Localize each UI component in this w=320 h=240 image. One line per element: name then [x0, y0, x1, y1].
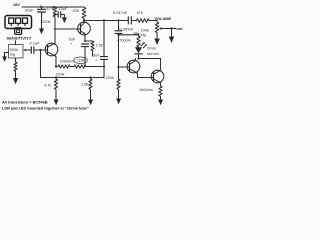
wire line B vertical with cap [118, 21, 120, 31]
node junction line B top [117, 19, 119, 21]
svg-text:SENSITIVITY: SENSITIVITY [7, 36, 32, 41]
wire pot lower terminal to ground left [5, 53, 9, 57]
svg-text:LDR and LED mounted together i: LDR and LED mounted together in “shrink … [2, 105, 89, 110]
svg-text:100ohm: 100ohm [139, 87, 153, 92]
svg-text:log: log [10, 52, 15, 57]
svg-text:1.5k: 1.5k [81, 82, 88, 87]
transistor Q3 [127, 60, 140, 73]
ground below R11 [88, 100, 93, 106]
node junction dot rail/R1 [53, 6, 55, 8]
svg-text:5mm: 5mm [147, 46, 156, 51]
node junction wireB/Q1 emitter column [55, 76, 57, 78]
svg-text:out: out [177, 26, 184, 31]
ground below out [169, 37, 175, 44]
wiper arrow + out wire [161, 28, 176, 30]
ground left of pot [2, 57, 7, 62]
node junction wireB/Q2 emitter column [89, 76, 91, 78]
svg-text:All transistors = BC548B: All transistors = BC548B [2, 99, 48, 104]
node junction chain / Q1 emitter [55, 65, 57, 67]
svg-text:220k: 220k [42, 19, 50, 24]
wire2 to 10k [119, 34, 139, 36]
ground below R10 [158, 100, 163, 106]
node junction out/ground [170, 27, 172, 29]
node junction line B / Q3 base [117, 66, 119, 68]
transistor Q1 [45, 43, 58, 56]
wire collector tie [139, 58, 161, 60]
svg-text:18V: 18V [13, 2, 20, 7]
svg-text:220k: 220k [106, 75, 114, 80]
wire signal bus y20.5 [84, 20, 128, 22]
svg-text:4.7k: 4.7k [47, 6, 54, 11]
svg-text:33uF: 33uF [25, 8, 34, 13]
node junction chain / line A [103, 65, 105, 67]
node Q1 base junction [39, 49, 41, 51]
svg-text:log: log [141, 32, 146, 37]
ground below R3 [13, 78, 18, 84]
resistor R5 1.5k from emitter [85, 41, 94, 56]
node junction Q2 collector [83, 19, 85, 21]
transistor Q4 [151, 70, 164, 83]
wire line A vertical [103, 21, 105, 57]
svg-text:220k: 220k [56, 72, 64, 77]
svg-text:1.5k: 1.5k [96, 43, 103, 48]
ground below VR2 [154, 39, 160, 46]
ground below C1 [39, 29, 44, 35]
capacitor C7 0.047uF [115, 31, 122, 34]
transistor Q2 [78, 22, 91, 35]
ground below R8 [116, 99, 121, 105]
svg-text:100ohm: 100ohm [60, 58, 74, 63]
svg-text:22k: 22k [73, 8, 79, 13]
capacitor C1 33uF [41, 7, 43, 9]
node Q2 emitter junction [84, 40, 86, 42]
LDR (oval label + zigzag) [74, 57, 88, 64]
LED D1 [135, 47, 142, 53]
wire feedback bottom (base column down + across) [41, 50, 105, 78]
input jack icon [5, 16, 32, 29]
resistor R3 below pot [14, 58, 17, 78]
svg-text:10uF: 10uF [59, 6, 68, 11]
ground below R7 [54, 100, 59, 106]
node junction LED / collectors [137, 57, 139, 59]
wire top supply rail [22, 6, 84, 8]
svg-text:LDR: LDR [77, 58, 85, 63]
svg-text:0.047uF: 0.047uF [113, 10, 128, 15]
svg-text:470ohm: 470ohm [117, 38, 131, 43]
svg-text:47k: 47k [137, 10, 143, 15]
node junction dot rail/C1 [40, 6, 42, 8]
node junction line A top [103, 19, 105, 21]
ground below C2 [62, 17, 67, 23]
capacitor C6 5uF series in line A [101, 57, 108, 60]
node junction line B / wire2 [117, 34, 119, 36]
svg-text:10k: 10k [133, 31, 140, 36]
capacitor C4 emitter bypass [82, 44, 89, 47]
svg-text:red led: red led [147, 51, 159, 56]
svg-text:0.1uF: 0.1uF [30, 41, 41, 46]
svg-text:4.7k: 4.7k [44, 83, 51, 88]
